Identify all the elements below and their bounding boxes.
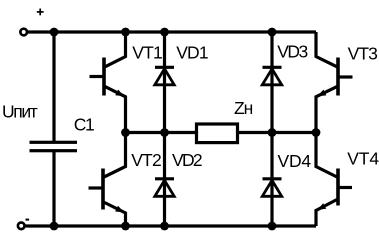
svg-text:VD4: VD4 bbox=[278, 151, 312, 171]
svg-text:C1: C1 bbox=[74, 114, 94, 134]
diode VD1 bbox=[155, 67, 174, 85]
wire middle rail left (node A to load) bbox=[126, 131, 197, 134]
svg-text:VD2: VD2 bbox=[172, 150, 202, 170]
label + bbox=[37, 9, 44, 16]
transistor VT4 bbox=[316, 133, 352, 227]
node top rail / left rail junction bbox=[50, 28, 59, 37]
node top rail / VT1 collector junction bbox=[121, 28, 130, 37]
node top rail / VD1 junction bbox=[160, 28, 169, 37]
svg-text:VT1: VT1 bbox=[132, 42, 162, 62]
svg-text:VT3: VT3 bbox=[348, 43, 378, 63]
diode VD3 bbox=[262, 67, 281, 85]
wire middle rail right (load to node B) bbox=[238, 131, 317, 134]
svg-text:VT4: VT4 bbox=[347, 149, 379, 169]
terminal positive input bbox=[20, 29, 27, 36]
node bottom rail / VD2 junction bbox=[160, 222, 169, 231]
diode VD2 bbox=[155, 179, 174, 197]
wire left vertical rail lower (from C1) bbox=[52, 152, 55, 226]
wire VD2 branch bbox=[163, 133, 166, 227]
svg-text:Zн: Zн bbox=[234, 98, 253, 118]
node A middle rail / VT1-VT2 junction bbox=[121, 128, 130, 137]
transistor VT3 bbox=[316, 32, 353, 133]
transistor VT2 bbox=[89, 133, 126, 227]
wire VD3 branch bbox=[270, 32, 273, 133]
wire VD4 branch bbox=[270, 133, 273, 227]
svg-text:VD3: VD3 bbox=[277, 41, 307, 61]
terminal negative input bbox=[18, 223, 25, 230]
diode VD4 bbox=[262, 179, 281, 197]
node bottom rail / VD4 junction bbox=[268, 222, 277, 231]
wire top rail bbox=[26, 30, 316, 33]
node bottom rail / left rail junction bbox=[50, 222, 59, 231]
capacitor C1 bbox=[30, 141, 78, 153]
node middle rail / VD3-VD4 junction bbox=[268, 128, 277, 137]
svg-text:Uпит: Uпит bbox=[2, 101, 38, 121]
wire bottom rail bbox=[24, 224, 316, 227]
node top rail / VD3 junction bbox=[268, 28, 277, 37]
wire left vertical rail upper (to C1) bbox=[52, 32, 55, 141]
node middle rail / VD1-VD2 junction bbox=[160, 128, 169, 137]
node B middle rail / VT3-VT4 junction bbox=[312, 128, 321, 137]
node bottom rail / VT2 emitter junction bbox=[121, 222, 130, 231]
load Zн resistor box bbox=[197, 124, 238, 143]
label - bbox=[26, 219, 30, 221]
svg-text:VT2: VT2 bbox=[131, 150, 161, 170]
wire VD1 branch bbox=[163, 32, 166, 133]
svg-text:VD1: VD1 bbox=[176, 42, 208, 62]
transistor VT1 bbox=[90, 32, 126, 133]
